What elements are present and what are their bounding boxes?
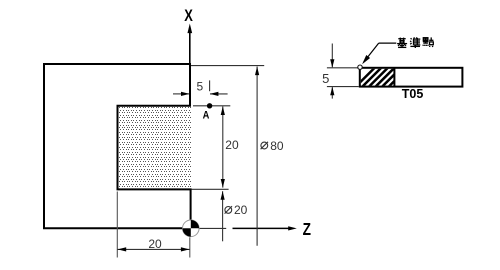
hatch divider xyxy=(393,68,395,87)
tool dim 5 line upper xyxy=(331,44,333,68)
svg-text:5: 5 xyxy=(322,71,329,86)
svg-text:20: 20 xyxy=(225,138,239,152)
svg-text:Z: Z xyxy=(303,220,312,239)
origin bullseye xyxy=(183,220,200,237)
point A xyxy=(207,103,212,108)
extension line at A level xyxy=(193,105,230,107)
svg-text:80: 80 xyxy=(270,139,284,153)
svg-text:T05: T05 xyxy=(402,87,424,101)
extension line below origin xyxy=(189,237,191,257)
extension line top edge (d80) xyxy=(191,65,264,67)
svg-text:X: X xyxy=(184,6,193,25)
label 基準點 (drawn glyphs) xyxy=(397,37,433,48)
X axis xyxy=(189,33,191,65)
extension line notch bottom xyxy=(192,188,229,190)
tool extension lines xyxy=(327,67,359,69)
svg-text:20: 20 xyxy=(148,237,162,251)
extension line x=117 (20 dim) xyxy=(116,192,118,258)
stipple fill (material to remove) xyxy=(119,107,191,187)
dim 5 right arrow xyxy=(210,93,228,95)
基 xyxy=(397,38,407,48)
dim 5 tick at A xyxy=(209,80,211,91)
svg-text:5: 5 xyxy=(196,79,203,93)
dim d20 label xyxy=(225,206,232,213)
tool dim 5 line lower xyxy=(331,87,333,98)
svg-text:A: A xyxy=(203,110,210,122)
dim d80 label xyxy=(261,142,268,149)
part profile outline xyxy=(44,64,191,228)
準 xyxy=(410,37,420,48)
dim 20 bottom line xyxy=(117,248,190,250)
點 xyxy=(423,37,434,47)
leader line to datum xyxy=(379,42,397,44)
dim 20 vertical line xyxy=(222,106,224,187)
tool body rectangle xyxy=(360,68,463,87)
dim d80 line xyxy=(256,67,258,246)
dim d20 line xyxy=(222,191,224,241)
datum point circle xyxy=(358,65,362,69)
dim 5 left arrow xyxy=(173,93,189,95)
tool hatch insert xyxy=(352,66,416,90)
svg-text:20: 20 xyxy=(234,203,248,217)
Z axis xyxy=(199,227,226,229)
